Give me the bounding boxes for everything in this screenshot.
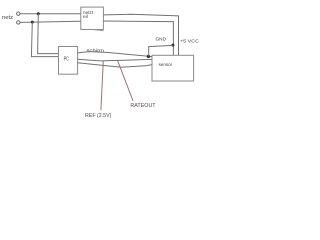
schirm label	[87, 48, 105, 54]
wire netz top to netzteil	[20, 13, 81, 15]
sensor box U3	[152, 55, 194, 81]
junction dot GND tap	[171, 44, 174, 47]
svg-text:netz: netz	[2, 15, 14, 21]
junction dot schirm	[147, 55, 150, 58]
node netz label	[2, 15, 14, 21]
PC box U2	[59, 47, 78, 75]
wire signal B from PC to sensor	[78, 59, 152, 61]
wire schirm from PC to sensor	[78, 52, 152, 57]
svg-text:sensor: sensor	[159, 62, 173, 67]
GND label	[156, 37, 167, 42]
sensor label	[159, 62, 173, 67]
leader line REF	[101, 61, 103, 110]
wire from dot A down to PC	[38, 14, 59, 54]
pen slip at netzteil bottom right	[94, 30, 104, 31]
junction dot B on bottom netz wire	[31, 21, 34, 24]
wire from dot B down to PC	[31, 22, 58, 57]
terminal T1 (netz phase)	[17, 12, 20, 15]
wire GND from netzteil to sensor top	[104, 21, 174, 55]
wire schirm to GND link	[149, 45, 173, 56]
+5 VCC label	[180, 39, 200, 44]
svg-text:+5 VCC: +5 VCC	[180, 39, 200, 44]
svg-text:PC: PC	[64, 56, 70, 62]
svg-text:RATEOUT: RATEOUT	[130, 103, 155, 109]
leader line RATEOUT	[118, 61, 133, 101]
wire signal C from PC to sensor	[78, 63, 152, 67]
svg-text:eil: eil	[83, 14, 88, 20]
svg-text:REF (2.5V): REF (2.5V)	[85, 113, 112, 119]
svg-text:GND: GND	[156, 37, 167, 42]
netzteil box U1	[81, 7, 104, 29]
svg-text:schirm: schirm	[87, 48, 105, 54]
wire +5V from netzteil to sensor top	[104, 14, 179, 55]
PC label	[64, 56, 70, 62]
terminal T2 (netz neutral)	[17, 21, 20, 24]
wire netz bottom to netzteil	[20, 21, 81, 22]
junction dot A on top netz wire	[37, 12, 40, 15]
netzteil label	[83, 10, 94, 20]
